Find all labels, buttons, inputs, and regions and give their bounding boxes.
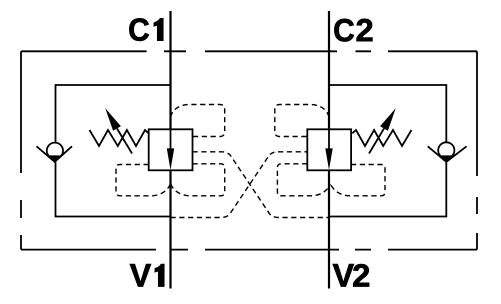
- right valve lower-right small loop to V2: [331, 165, 385, 196]
- spring right: [352, 130, 411, 146]
- valve body left (square): [149, 129, 193, 170]
- port label V2: [333, 264, 354, 286]
- adjuster arrow right: [369, 129, 384, 154]
- bottom edge: [21, 249, 477, 251]
- middle-right pilot: left valve to V2 line (diagonal): [193, 152, 330, 218]
- internal flow line + arrow right: [328, 129, 330, 150]
- inner solid circuit right: [329, 85, 446, 217]
- port label V1: [130, 264, 151, 286]
- upper-right loop from C1 line to valve top-right port: [171, 105, 225, 137]
- port line C2-V2: [328, 11, 330, 289]
- spring left: [90, 130, 149, 146]
- port line C1-V1: [169, 11, 171, 289]
- internal flow line + arrow left: [170, 129, 172, 150]
- check valve CV1 (left): [37, 143, 73, 163]
- right valve lower-left small loop to V2: [277, 164, 330, 196]
- top edge: [21, 50, 477, 52]
- inner solid circuit left: [56, 85, 171, 217]
- valve body right (square): [307, 129, 351, 170]
- pilot dashed lines left valve: [116, 105, 385, 218]
- port label C2: [334, 19, 354, 42]
- outer enclosure dashed box: [21, 51, 477, 249]
- adjuster arrow left: [117, 129, 132, 154]
- upper-left loop from C2 line to right valve top-left port: [275, 105, 329, 137]
- port label C1: [129, 18, 149, 41]
- left edge: [20, 51, 22, 249]
- pilot from V1 to right valve (diagonal): [171, 152, 308, 218]
- lower-left small loop to V1: [116, 165, 170, 196]
- check valve CV2 (right): [428, 142, 467, 162]
- lower-right small loop to V1: [171, 164, 225, 196]
- right edge: [476, 51, 478, 249]
